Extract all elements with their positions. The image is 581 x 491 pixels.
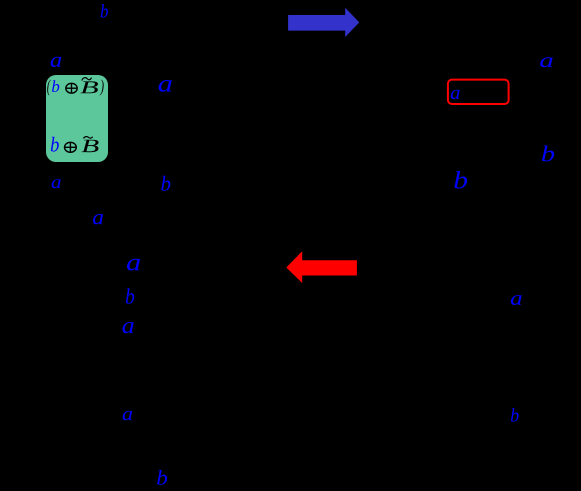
edge label a (center-left tree upper) [127,259,140,271]
B of (b xor B-tilde) [80,81,98,93]
blue arrow (top, pointing right) [288,8,359,37]
green highlight box around left tree nodes [46,75,108,162]
edge label a (bottom-right tree upper) [511,295,522,305]
edge label b (top-left tree, root edge) [101,4,108,17]
tilde accent over B (top line) [82,78,92,81]
edge label a (left mid tree) [93,214,103,224]
close paren of (b xor B-tilde) [100,79,104,95]
edge label a (left of green box) [51,57,62,67]
B of b xor B-bar [81,140,98,153]
edge label b (bottom-left tree lower) [157,470,167,485]
oplus symbol (bottom line in green box) [65,142,77,152]
oplus symbol (top line in green box) [66,83,77,93]
edge label b (top-right tree lower) [454,171,467,188]
edge label a (bottom-left tree) [123,411,132,420]
flat tilde accent over B (bottom line) [83,137,92,139]
red arrow (middle, pointing left) [286,251,357,283]
edge label a (center-left tree lower) [123,322,134,333]
edge label a (below green box) [52,179,61,188]
edge label b (center-left tree middle) [126,288,134,304]
edge label a (inside red outline box) [451,90,460,99]
edge label a (top-left tree, right edge) [159,80,172,92]
edge label a (top-right tree upper) [540,57,552,67]
red outline box (right tree node) [448,80,509,104]
edge label b (top-right tree right) [542,145,554,161]
blue b of b xor B-bar (bottom line) [51,137,59,152]
edge label b (top-left tree, lower right) [161,176,170,191]
blue b of (b xor B-tilde) [52,80,59,92]
edge label b (bottom-right tree lower) [511,408,519,422]
open paren of (b xor B-tilde) [47,79,51,95]
